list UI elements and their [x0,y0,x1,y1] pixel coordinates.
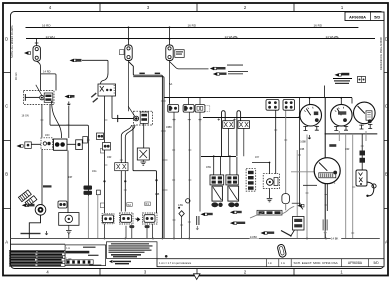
svg-text:16BK: 16BK [300,141,306,144]
svg-text:16 RD: 16 RD [314,24,323,28]
svg-text:B: B [385,172,388,177]
svg-text:16 GN: 16 GN [14,72,18,80]
svg-text:5/D: 5/D [374,14,380,19]
svg-text:C: C [385,104,388,109]
svg-text:16 RD: 16 RD [188,24,197,28]
svg-text:14 RD: 14 RD [43,70,51,74]
svg-text:14 WH/BL: 14 WH/BL [225,35,239,39]
svg-text:X2: X2 [127,203,131,207]
svg-text:1: 1 [334,181,336,185]
svg-text:14 WH/BL: 14 WH/BL [326,35,340,39]
svg-text:A: A [385,240,388,245]
svg-text:NOTE: ALL WIRES 16 AWG: NOTE: ALL WIRES 16 AWG [10,25,14,58]
svg-text:14W: 14W [178,204,184,207]
svg-text:16 GN: 16 GN [22,115,29,118]
svg-text:16W: 16W [206,166,212,169]
svg-text:AF9608A: AF9608A [349,14,366,19]
svg-text:1 in: 1 in [268,262,273,265]
svg-text:D: D [5,37,8,42]
svg-text:14B: 14B [155,193,160,196]
svg-text:16B: 16B [300,148,305,151]
svg-text:14 BK: 14 BK [250,235,258,239]
svg-text:5A: 5A [169,82,172,86]
svg-text:16G: 16G [92,170,97,173]
svg-text:5/D: 5/D [373,261,379,265]
svg-text:16P: 16P [68,176,73,179]
svg-text:1 m: 1 m [281,262,285,265]
svg-text:A: A [5,240,8,245]
svg-text:D: D [385,37,388,42]
svg-text:16R: 16R [345,148,350,151]
svg-text:SCH. ELECT. MOD. CHN4 CSA: SCH. ELECT. MOD. CHN4 CSA [294,261,339,265]
svg-text:1 cm = 1.7 cm per tolerance: 1 cm = 1.7 cm per tolerance [159,261,192,265]
svg-text:14 BK: 14 BK [331,237,339,241]
svg-text:16Y: 16Y [255,156,260,159]
svg-text:16O: 16O [45,134,50,137]
svg-text:16 RD: 16 RD [42,24,51,28]
svg-text:16BK: 16BK [166,126,172,129]
svg-text:16R: 16R [107,156,112,159]
svg-text:X1: X1 [145,202,149,206]
svg-text:14 WH: 14 WH [46,35,55,39]
svg-text:REFERENCE DWG AF9608: REFERENCE DWG AF9608 [379,37,383,70]
svg-text:C: C [5,104,8,109]
svg-text:B: B [5,172,8,177]
svg-text:AF9608A: AF9608A [348,261,363,265]
